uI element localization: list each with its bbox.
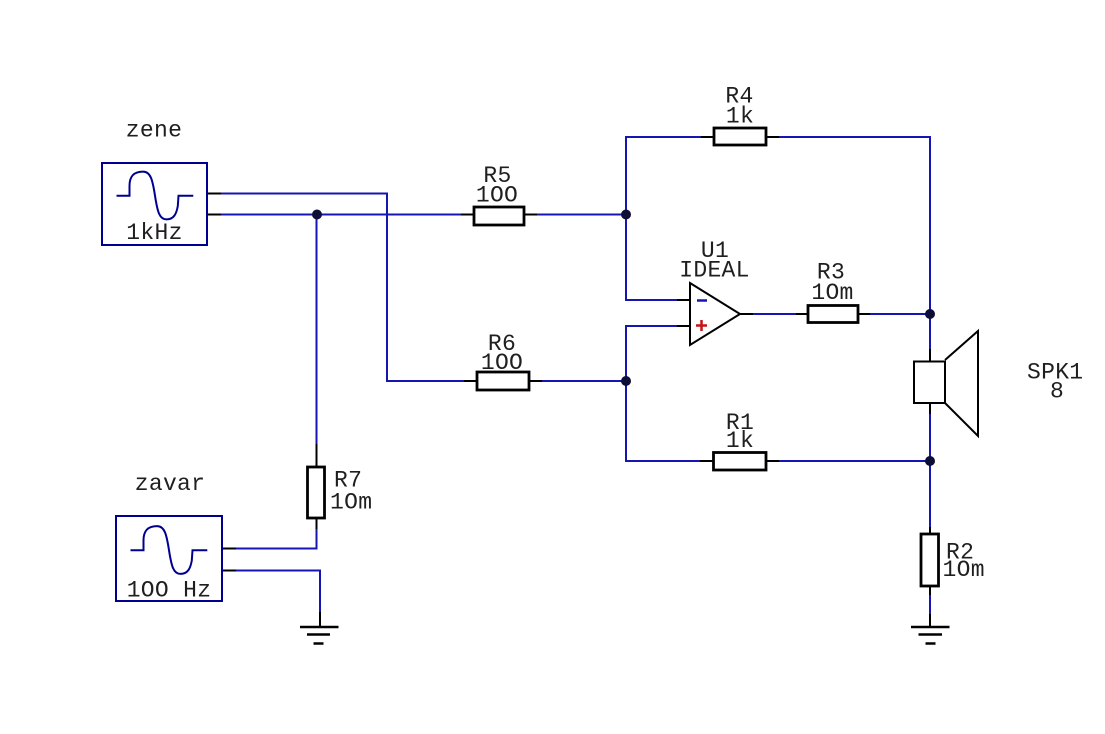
svg-text:zene: zene bbox=[126, 118, 182, 144]
svg-text:1k: 1k bbox=[726, 104, 754, 130]
svg-text:8: 8 bbox=[1050, 379, 1064, 405]
svg-text:IDEAL: IDEAL bbox=[679, 258, 750, 284]
svg-text:zavar: zavar bbox=[135, 471, 206, 497]
svg-text:1kHz: 1kHz bbox=[126, 220, 182, 246]
svg-text:1k: 1k bbox=[726, 428, 754, 454]
svg-text:1Om: 1Om bbox=[943, 557, 985, 583]
svg-text:1Om: 1Om bbox=[811, 280, 853, 306]
svg-text:1Om: 1Om bbox=[330, 490, 372, 516]
svg-text:1OO Hz: 1OO Hz bbox=[127, 578, 212, 604]
svg-text:1OO: 1OO bbox=[481, 350, 523, 376]
svg-text:1OO: 1OO bbox=[476, 183, 518, 209]
